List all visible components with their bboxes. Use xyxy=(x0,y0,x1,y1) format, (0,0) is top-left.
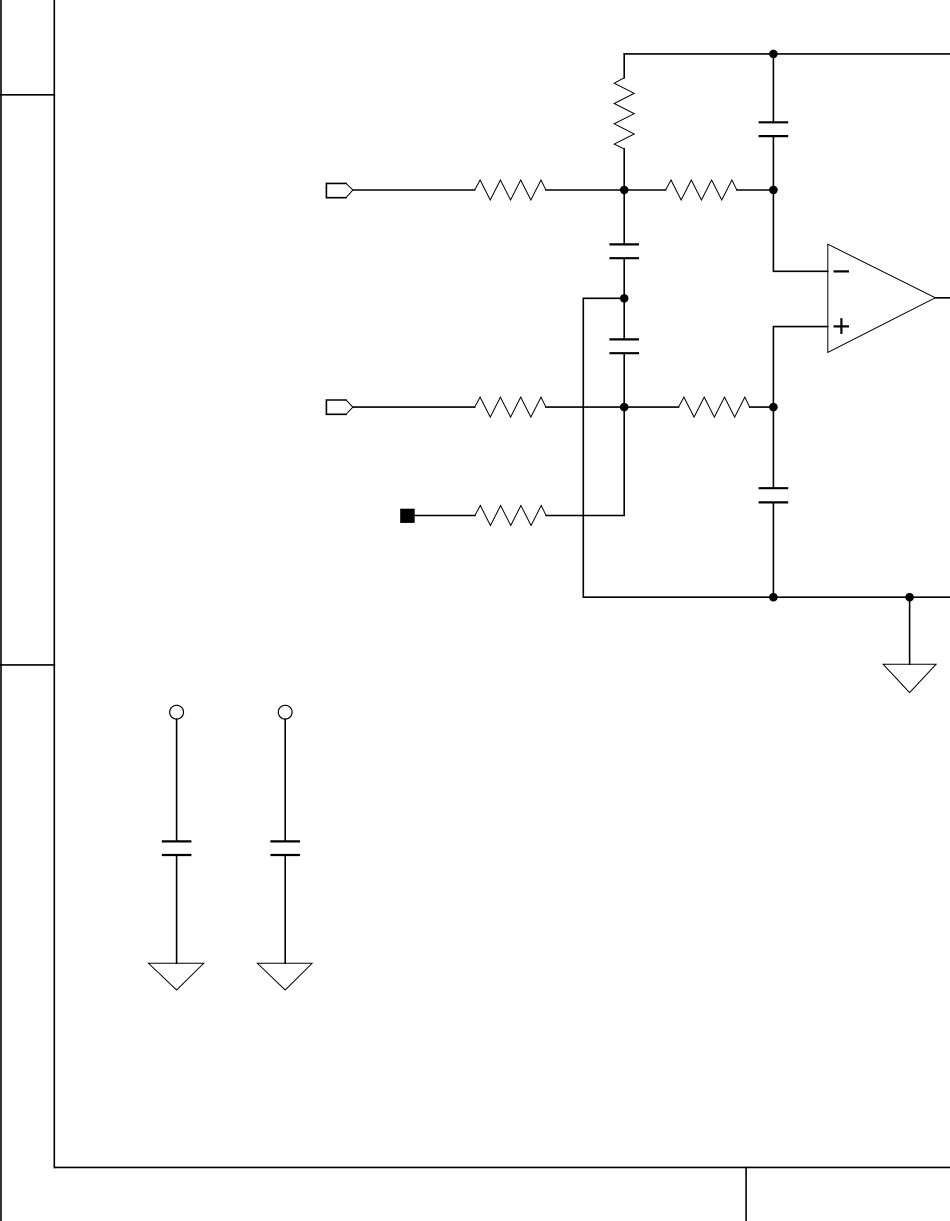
wire xyxy=(353,189,475,191)
ground xyxy=(257,963,312,990)
junction top rail / C1 xyxy=(769,50,778,59)
wire top rail xyxy=(624,53,950,55)
junction A2 xyxy=(620,294,629,303)
capacitor C2 xyxy=(611,190,638,298)
op-amp U1 xyxy=(828,244,936,352)
capacitor C3 xyxy=(611,298,638,407)
resistor R3 xyxy=(624,180,773,200)
junction B3 xyxy=(769,403,778,412)
wire non-inverting input xyxy=(773,327,827,408)
capacitor C4 xyxy=(760,407,787,597)
wire xyxy=(353,406,475,408)
wire xyxy=(546,407,624,515)
terminal circle 2 xyxy=(278,705,292,719)
capacitor C1 xyxy=(760,54,787,190)
capacitor C5 xyxy=(163,719,190,963)
junction A1 xyxy=(620,186,629,195)
wire xyxy=(546,406,624,408)
junction A3 xyxy=(620,403,629,412)
wire xyxy=(546,189,624,191)
ground xyxy=(149,963,204,990)
resistor R4 xyxy=(475,397,546,417)
connector pin 2 xyxy=(326,400,353,414)
ground xyxy=(883,597,936,692)
connector pin 1 xyxy=(326,183,353,197)
wire left branch xyxy=(583,298,624,597)
terminal circle 1 xyxy=(170,705,184,719)
junction B1 xyxy=(769,186,778,195)
wire xyxy=(416,515,475,517)
resistor R5 xyxy=(624,397,773,417)
junction bottom rail / C4 xyxy=(769,593,778,602)
resistor R6 xyxy=(475,506,546,526)
resistor R1 xyxy=(614,54,634,190)
wire inverting input xyxy=(773,190,827,271)
capacitor C6 xyxy=(272,719,299,963)
resistor R2 xyxy=(475,180,546,200)
junction bottom rail / ground xyxy=(905,593,914,602)
wire op-amp output xyxy=(935,297,950,299)
wire bottom rail xyxy=(583,596,950,598)
node solid square terminal xyxy=(400,509,415,523)
